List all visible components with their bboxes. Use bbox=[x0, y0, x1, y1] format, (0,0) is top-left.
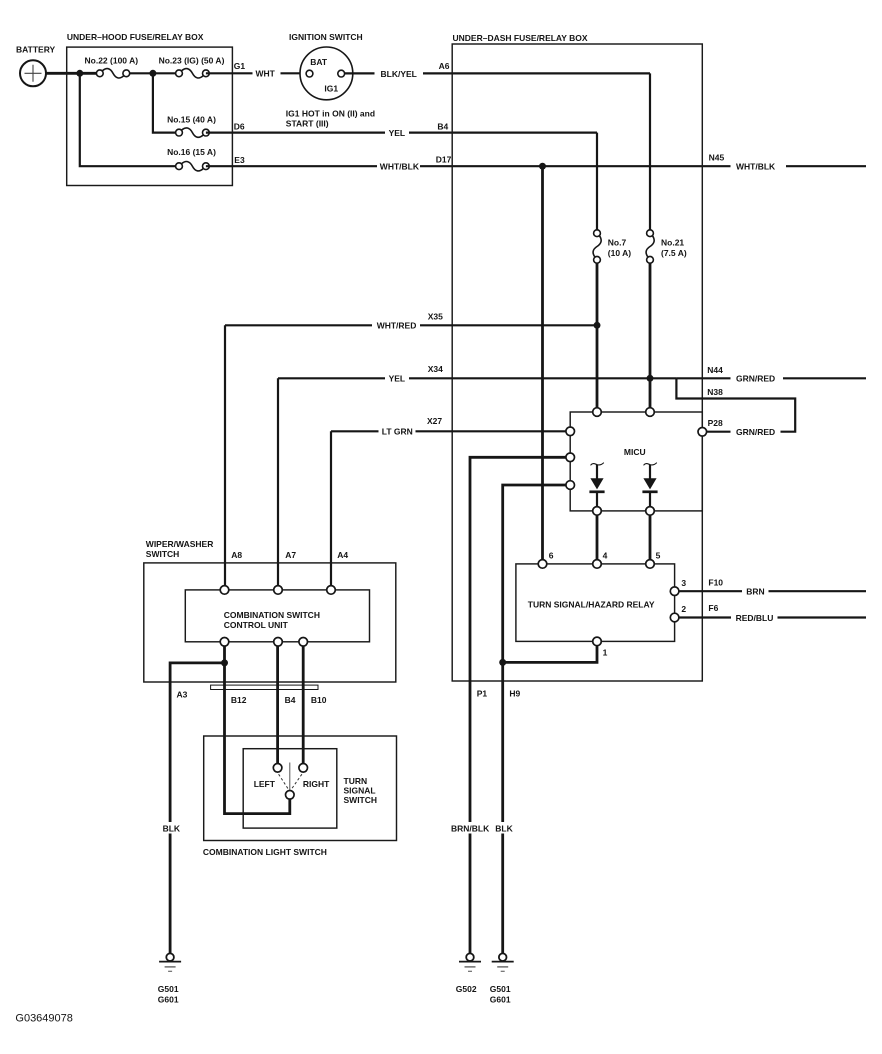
wire relay pin 1 to H9 bbox=[503, 646, 597, 663]
svg-text:RIGHT: RIGHT bbox=[303, 779, 330, 789]
svg-text:START (III): START (III) bbox=[286, 119, 329, 129]
ignition terminal IG1 bbox=[338, 70, 345, 77]
wire H9 feed from MICU bbox=[503, 485, 571, 954]
svg-text:F6: F6 bbox=[708, 603, 718, 613]
relay terminal 2 bbox=[670, 613, 679, 622]
svg-text:A8: A8 bbox=[231, 550, 242, 560]
svg-text:No.16 (15 A): No.16 (15 A) bbox=[167, 147, 216, 157]
svg-text:No.22 (100 A): No.22 (100 A) bbox=[85, 55, 139, 65]
svg-text:No.23 (IG) (50 A): No.23 (IG) (50 A) bbox=[159, 55, 225, 65]
wire X35 down to A8 bbox=[224, 325, 226, 585]
relay terminal 1 bbox=[593, 637, 602, 646]
fuse No.15 (40 A) bbox=[167, 115, 216, 138]
svg-text:B10: B10 bbox=[311, 695, 327, 705]
svg-text:RED/BLU: RED/BLU bbox=[736, 613, 774, 623]
svg-text:6: 6 bbox=[549, 551, 554, 561]
control unit terminal A8 bbox=[220, 586, 229, 595]
junction D17 to relay pin 6 bbox=[539, 163, 546, 170]
svg-text:4: 4 bbox=[603, 551, 608, 561]
wire battery to under-hood box bbox=[46, 72, 100, 75]
switch contact RIGHT bbox=[299, 764, 308, 773]
fuse No.23 (IG)(50 A) bbox=[159, 55, 225, 78]
MICU terminal P28 bbox=[698, 428, 707, 437]
switch dashed throw right bbox=[291, 774, 302, 789]
ignition switch bbox=[300, 47, 353, 100]
switch lever bbox=[289, 763, 291, 791]
svg-text:IGNITION SWITCH: IGNITION SWITCH bbox=[289, 32, 363, 42]
svg-text:No.21: No.21 bbox=[661, 238, 684, 248]
svg-text:BLK: BLK bbox=[495, 824, 513, 834]
junction battery feed 2 bbox=[149, 70, 156, 77]
svg-text:BAT: BAT bbox=[310, 57, 328, 67]
svg-text:A6: A6 bbox=[439, 61, 450, 71]
wire A3 BLK to ground bbox=[170, 646, 224, 954]
wire D6 / YEL to B4 bbox=[206, 132, 597, 134]
MICU terminal bottom 1 bbox=[593, 507, 602, 516]
wire WHT to ignition bbox=[281, 72, 307, 74]
relay terminal 6 bbox=[538, 560, 547, 569]
control unit terminal A4 bbox=[327, 586, 336, 595]
wire node to fuse No.23 bbox=[126, 72, 179, 74]
svg-text:G501: G501 bbox=[158, 984, 179, 994]
control unit terminal B12 bbox=[220, 638, 229, 647]
wire relay pin 3 F10 BRN bbox=[679, 590, 866, 592]
svg-text:(7.5 A): (7.5 A) bbox=[661, 248, 687, 258]
svg-text:No.7: No.7 bbox=[608, 238, 627, 248]
wire G1 out of box bbox=[206, 72, 253, 74]
svg-text:TURN SIGNAL/HAZARD RELAY: TURN SIGNAL/HAZARD RELAY bbox=[528, 599, 655, 609]
svg-text:B4: B4 bbox=[437, 121, 448, 131]
svg-text:D17: D17 bbox=[436, 154, 452, 164]
svg-text:(10 A): (10 A) bbox=[608, 248, 631, 258]
svg-text:P28: P28 bbox=[708, 418, 723, 428]
svg-text:UNDER–HOOD FUSE/RELAY BOX: UNDER–HOOD FUSE/RELAY BOX bbox=[67, 32, 204, 42]
wire X27 LT GRN bbox=[331, 430, 570, 432]
svg-text:BATTERY: BATTERY bbox=[16, 45, 56, 55]
svg-text:1: 1 bbox=[603, 648, 608, 658]
wire BLK/YEL to A6 bbox=[345, 72, 650, 74]
svg-text:YEL: YEL bbox=[389, 128, 406, 138]
svg-text:BRN/BLK: BRN/BLK bbox=[451, 824, 490, 834]
svg-text:A3: A3 bbox=[177, 690, 188, 700]
turn signal/hazard relay box bbox=[516, 564, 675, 642]
wire N44 to N38 jog bbox=[676, 378, 795, 431]
svg-text:5: 5 bbox=[656, 551, 661, 561]
ground G501/G601 left bbox=[158, 953, 181, 1004]
svg-text:B4: B4 bbox=[285, 695, 296, 705]
switch contact LEFT bbox=[273, 764, 282, 773]
svg-text:B12: B12 bbox=[231, 695, 247, 705]
wire junction2 down to No.15 bbox=[153, 73, 179, 132]
svg-text:SWITCH: SWITCH bbox=[146, 549, 180, 559]
svg-text:IG1: IG1 bbox=[324, 84, 338, 94]
svg-text:G502: G502 bbox=[456, 984, 477, 994]
wire junction1 down to No.16 bbox=[80, 73, 179, 166]
svg-text:GRN/RED: GRN/RED bbox=[736, 374, 775, 384]
svg-text:2: 2 bbox=[681, 604, 686, 614]
svg-text:H9: H9 bbox=[509, 689, 520, 699]
wire B4 down to fuse No.7 bbox=[596, 133, 598, 230]
wire MICU to relay pin 4 bbox=[596, 515, 599, 560]
svg-text:CONTROL UNIT: CONTROL UNIT bbox=[224, 620, 289, 630]
switch dashed throw left bbox=[279, 774, 289, 789]
svg-text:COMBINATION SWITCH: COMBINATION SWITCH bbox=[224, 610, 320, 620]
junction X34 at No.21 bbox=[647, 375, 654, 382]
svg-text:TURN: TURN bbox=[344, 776, 368, 786]
junction battery feed 1 bbox=[76, 70, 83, 77]
MICU terminal H9 bbox=[566, 481, 575, 490]
ground G502 bbox=[456, 953, 481, 994]
svg-text:A4: A4 bbox=[337, 550, 348, 560]
junction A3/B12 bbox=[221, 659, 228, 666]
svg-text:G501: G501 bbox=[490, 984, 511, 994]
svg-text:P1: P1 bbox=[477, 689, 488, 699]
svg-text:SIGNAL: SIGNAL bbox=[344, 786, 376, 796]
svg-text:BLK: BLK bbox=[163, 824, 181, 834]
svg-text:WHT/RED: WHT/RED bbox=[377, 321, 417, 331]
svg-text:LEFT: LEFT bbox=[254, 779, 276, 789]
svg-text:WIPER/WASHER: WIPER/WASHER bbox=[146, 539, 214, 549]
svg-text:BRN: BRN bbox=[746, 587, 764, 597]
control unit terminal A7 bbox=[274, 586, 283, 595]
wire relay pin 2 F6 RED/BLU bbox=[679, 616, 866, 618]
svg-text:UNDER–DASH FUSE/RELAY BOX: UNDER–DASH FUSE/RELAY BOX bbox=[453, 33, 588, 43]
svg-text:A7: A7 bbox=[285, 550, 296, 560]
svg-text:WHT/BLK: WHT/BLK bbox=[736, 162, 776, 172]
MICU box bbox=[570, 412, 702, 511]
wire X34 down to A7 bbox=[277, 378, 279, 585]
svg-text:No.15 (40 A): No.15 (40 A) bbox=[167, 115, 216, 125]
ground G501/G601 right bbox=[490, 953, 514, 1004]
wire P28 GRN/RED bbox=[702, 431, 730, 433]
wire fuse No.21 output down to MICU bbox=[649, 263, 652, 408]
control unit terminal B10 bbox=[299, 638, 308, 647]
wire B10 to switch bbox=[302, 646, 305, 764]
wire A6 down to fuse No.21 bbox=[649, 73, 651, 229]
svg-text:N38: N38 bbox=[707, 387, 723, 397]
svg-text:BLK/YEL: BLK/YEL bbox=[381, 69, 417, 79]
connector bracket B bbox=[211, 685, 318, 689]
svg-text:N45: N45 bbox=[709, 153, 725, 163]
svg-text:YEL: YEL bbox=[389, 374, 406, 384]
switch labels bbox=[254, 779, 330, 789]
wire B4 to switch bbox=[276, 646, 279, 764]
wire D17 junction down to relay pin 6 bbox=[541, 166, 544, 560]
junction H9 relay pin1 bbox=[499, 659, 506, 666]
svg-text:SWITCH: SWITCH bbox=[344, 795, 378, 805]
MICU terminal P1 bbox=[566, 453, 575, 462]
fuse No.16 (15 A) bbox=[167, 147, 216, 171]
svg-text:WHT/BLK: WHT/BLK bbox=[380, 162, 420, 172]
svg-text:X35: X35 bbox=[428, 312, 443, 322]
turn signal switch box bbox=[243, 749, 337, 828]
under-dash fuse/relay box bbox=[452, 44, 702, 681]
wiper/washer switch box bbox=[144, 563, 396, 682]
svg-text:3: 3 bbox=[681, 578, 686, 588]
svg-text:F10: F10 bbox=[708, 578, 723, 588]
svg-text:N44: N44 bbox=[707, 365, 723, 375]
ignition terminal BAT bbox=[306, 70, 313, 77]
svg-text:E3: E3 bbox=[234, 155, 245, 165]
relay pin labels bbox=[549, 551, 687, 658]
svg-text:MICU: MICU bbox=[624, 447, 646, 457]
wire fuse No.7 output down to MICU bbox=[596, 263, 599, 408]
wire B12 to turn signal switch bbox=[225, 663, 290, 814]
svg-text:GRN/RED: GRN/RED bbox=[736, 427, 775, 437]
relay terminal 4 bbox=[593, 560, 602, 569]
switch common contact bbox=[286, 791, 295, 800]
wire E3 / WHT/BLK / D17 across box / N45 bbox=[206, 165, 866, 167]
MICU terminal top 1 bbox=[593, 408, 602, 417]
wire N44 GRN/RED bbox=[676, 377, 866, 379]
fuse No.21 (7.5 A) bbox=[646, 230, 687, 263]
relay terminal 3 bbox=[670, 587, 679, 596]
fuse No.7 (10 A) bbox=[593, 230, 631, 263]
svg-text:G601: G601 bbox=[490, 994, 511, 1004]
relay terminal 5 bbox=[646, 560, 655, 569]
battery bbox=[20, 60, 46, 86]
combination light switch box bbox=[204, 736, 397, 841]
svg-text:IG1 HOT in ON (II) and: IG1 HOT in ON (II) and bbox=[286, 108, 375, 118]
wire MICU to relay pin 5 bbox=[649, 515, 652, 560]
diode D1 bbox=[589, 463, 604, 507]
under-hood fuse/relay box bbox=[67, 47, 233, 185]
junction X35 at No.7 bbox=[594, 322, 601, 329]
control unit terminal B4 bbox=[274, 638, 283, 647]
svg-text:LT GRN: LT GRN bbox=[382, 427, 413, 437]
svg-text:D6: D6 bbox=[234, 121, 245, 131]
svg-text:WHT: WHT bbox=[256, 69, 276, 79]
wire X34 YEL bbox=[278, 377, 676, 379]
svg-text:G1: G1 bbox=[234, 61, 246, 71]
svg-text:COMBINATION LIGHT SWITCH: COMBINATION LIGHT SWITCH bbox=[203, 847, 327, 857]
fuse No.22 (100 A) bbox=[85, 55, 139, 78]
MICU terminal bottom 2 bbox=[646, 507, 655, 516]
svg-text:X34: X34 bbox=[428, 364, 443, 374]
combination switch control unit box bbox=[185, 590, 369, 642]
pin labels B12 B4 B10 bbox=[231, 695, 327, 705]
diode D2 bbox=[642, 463, 657, 507]
MICU terminal top 2 bbox=[646, 408, 655, 417]
pin labels A8 A7 A4 bbox=[231, 550, 348, 560]
MICU terminal X27 bbox=[566, 427, 575, 436]
turn signal switch label bbox=[344, 776, 378, 805]
wire X35 WHT/RED bbox=[225, 324, 597, 326]
wire X27 down to A4 bbox=[330, 431, 332, 585]
svg-text:G601: G601 bbox=[158, 994, 179, 1004]
svg-text:X27: X27 bbox=[427, 416, 442, 426]
svg-text:G03649078: G03649078 bbox=[15, 1013, 73, 1025]
wire P1 feed from MICU bbox=[470, 457, 570, 953]
